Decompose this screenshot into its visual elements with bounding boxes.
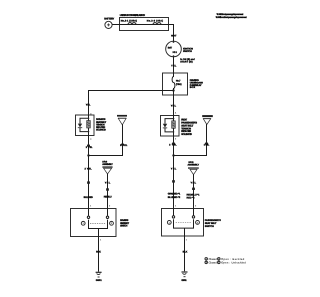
driver seat belt switch S1 — [71, 209, 130, 237]
svg-text:SWITCH: SWITCH — [183, 50, 192, 53]
svg-text:No.2-1 (100A): No.2-1 (100A) — [121, 20, 137, 23]
wire ignition switch to under-dash box — [173, 57, 175, 73]
svg-text:YEL: YEL — [171, 167, 177, 170]
ref arrow gauge assembly right T4 — [188, 161, 200, 175]
wire right box to ground — [184, 236, 186, 271]
svg-text:G601: G601 — [181, 279, 187, 282]
battery — [104, 18, 114, 29]
wire under-hood box to ignition switch — [169, 25, 174, 42]
node junction in box — [172, 89, 174, 91]
svg-text:SOLENOID: SOLENOID — [181, 133, 192, 136]
svg-text:G501: G501 — [96, 279, 103, 282]
svg-text:BAT: BAT — [168, 46, 173, 49]
wire right main middle — [173, 136, 175, 208]
svg-text:BATTERY: BATTERY — [104, 18, 114, 21]
driver under-dash fuse/relay box — [163, 73, 204, 95]
legend line 1 — [205, 258, 245, 261]
svg-text:2 YEL: 2 YEL — [85, 167, 93, 170]
svg-text:ASSEMBLY: ASSEMBLY — [188, 164, 200, 167]
svg-text:*2 : Without front passenger’s: *2 : Without front passenger’s power sea… — [216, 16, 247, 19]
svg-text:No.2-3 (40A): No.2-3 (40A) — [147, 20, 163, 23]
svg-text:START (III): START (III) — [180, 61, 193, 64]
connector bar tri2 right — [192, 188, 195, 190]
svg-text:1: 1 — [218, 261, 219, 264]
legend line 2 — [205, 261, 246, 264]
svg-text:1 YEL: 1 YEL — [204, 144, 210, 147]
ground G501 — [96, 272, 103, 282]
svg-text:BLK: BLK — [96, 251, 101, 254]
ground G601 — [181, 272, 187, 282]
svg-text:WHT: WHT — [171, 34, 177, 37]
svg-text:2 YEL: 2 YEL — [169, 144, 177, 147]
svg-text:RED/BLU: RED/BLU — [104, 196, 112, 199]
svg-text:UNDER-HOOD FUSE/RELAY BOX: UNDER-HOOD FUSE/RELAY BOX — [120, 14, 146, 17]
node junction left main — [87, 154, 89, 156]
fuse No.2-3 (40A) — [145, 20, 169, 25]
svg-text:2: 2 — [206, 261, 207, 264]
wire T2 to right main junction — [174, 124, 207, 156]
svg-text:YEL: YEL — [171, 64, 177, 67]
svg-text:2 YEL: 2 YEL — [86, 146, 93, 149]
fuse No.7 (7.5A) — [172, 73, 182, 91]
svg-text:1: 1 — [206, 258, 207, 261]
svg-text:2: 2 — [218, 258, 219, 261]
ignition switch U1 — [166, 41, 194, 57]
svg-text:RED *2: RED *2 — [187, 197, 196, 200]
ref arrow MICU left T1 — [117, 115, 127, 125]
svg-text:Open : Buckled: Open : Buckled — [221, 258, 245, 261]
svg-text:SOLENOID: SOLENOID — [96, 129, 106, 132]
wire T4 down to right box — [193, 174, 195, 208]
wire left main middle — [88, 136, 90, 209]
ref arrow gauge assembly left T3 — [102, 160, 113, 174]
wire left column upper — [88, 105, 90, 115]
connector tri1 left — [120, 144, 128, 148]
connector right main — [169, 143, 177, 147]
svg-text:BLU/RED: BLU/RED — [84, 196, 93, 199]
svg-text:YEL: YEL — [191, 182, 197, 185]
front passenger seat belt tension reducer solenoid L2 — [161, 115, 198, 136]
connector bar right lower — [172, 180, 175, 182]
svg-text:YEL: YEL — [105, 182, 111, 185]
wire battery to under-hood box — [112, 24, 119, 26]
svg-text:SRS: SRS — [188, 161, 194, 164]
svg-text:BLU/RED *2: BLU/RED *2 — [168, 196, 181, 199]
svg-text:Closed ,: Closed , — [209, 262, 219, 265]
svg-text:(7.5A): (7.5A) — [176, 83, 182, 86]
connector left main — [86, 145, 93, 149]
connector bar tri2 left — [106, 188, 109, 190]
svg-text:SWITCH: SWITCH — [205, 225, 214, 228]
fuse No.2-1 (100A) — [120, 20, 146, 25]
wire under-dash output horizontal to left column — [89, 91, 174, 106]
svg-text:YEL: YEL — [86, 104, 91, 107]
svg-text:BLK: BLK — [183, 251, 188, 254]
svg-text:IG1: IG1 — [173, 51, 178, 54]
svg-text:GRN/RED *1: GRN/RED *1 — [168, 192, 181, 195]
svg-text:ASSEMBLY: ASSEMBLY — [102, 163, 113, 166]
connector bar left lower — [87, 181, 90, 183]
wire T3 down to left box — [107, 174, 109, 209]
wire under-dash box down — [173, 91, 175, 116]
svg-text:BOX: BOX — [190, 86, 196, 89]
front passenger seat belt switch S2 — [162, 209, 222, 237]
svg-text:SWITCH: SWITCH — [120, 225, 127, 228]
svg-text:1 YEL: 1 YEL — [120, 144, 128, 147]
svg-text:in ON (II) and: in ON (II) and — [180, 58, 195, 61]
wire left box to ground — [98, 237, 100, 272]
node junction right main — [172, 154, 174, 156]
svg-text:YEL: YEL — [171, 104, 177, 107]
driver seat belt tension reducer solenoid L1 — [76, 115, 107, 136]
under-hood fuse/relay box — [120, 14, 169, 30]
connector tri1 right — [204, 143, 210, 147]
ref arrow MICU right T2 — [202, 115, 213, 124]
svg-text:Closed ,: Closed , — [209, 258, 219, 261]
svg-text:Open : Unbuckled: Open : Unbuckled — [221, 262, 246, 265]
wire T1 to left main junction — [89, 124, 123, 155]
svg-text:*1 : With front passenger’s po: *1 : With front passenger’s power seat — [217, 13, 244, 16]
